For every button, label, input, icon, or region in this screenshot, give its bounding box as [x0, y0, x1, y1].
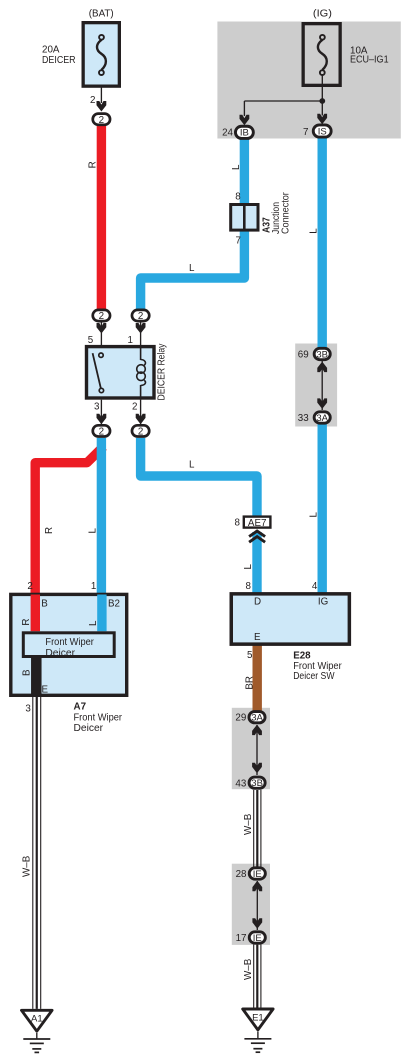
svg-text:2: 2 — [99, 427, 104, 438]
svg-text:Deicer: Deicer — [45, 648, 75, 659]
svg-text:IE: IE — [253, 933, 262, 944]
svg-text:3B: 3B — [251, 778, 263, 789]
svg-text:2: 2 — [90, 95, 95, 106]
svg-text:2: 2 — [99, 311, 104, 322]
svg-text:69: 69 — [298, 349, 309, 360]
svg-text:8: 8 — [234, 518, 240, 529]
svg-text:29: 29 — [235, 713, 246, 724]
svg-text:B2: B2 — [108, 598, 120, 609]
svg-text:A1: A1 — [31, 1014, 43, 1025]
svg-text:L: L — [308, 228, 319, 234]
svg-text:2: 2 — [132, 401, 137, 412]
svg-text:DEICER: DEICER — [42, 55, 76, 66]
svg-text:A7: A7 — [74, 701, 87, 712]
svg-text:8: 8 — [235, 192, 241, 203]
svg-text:B: B — [21, 669, 32, 676]
svg-text:AE7: AE7 — [248, 518, 267, 529]
svg-text:IG: IG — [318, 597, 328, 608]
svg-text:28: 28 — [236, 869, 247, 880]
svg-text:W–B: W–B — [243, 813, 254, 835]
svg-text:7: 7 — [236, 236, 241, 247]
svg-text:E28: E28 — [293, 650, 311, 661]
svg-text:8: 8 — [246, 581, 252, 592]
svg-text:(IG): (IG) — [313, 9, 332, 20]
svg-text:BR: BR — [244, 676, 255, 690]
svg-text:E1: E1 — [252, 1012, 264, 1023]
svg-text:R: R — [44, 527, 55, 534]
svg-text:3A: 3A — [316, 413, 328, 424]
svg-text:Deicer SW: Deicer SW — [293, 671, 335, 682]
svg-text:R: R — [88, 161, 99, 168]
svg-text:Front Wiper: Front Wiper — [45, 637, 94, 648]
svg-text:E: E — [42, 684, 49, 695]
svg-text:1: 1 — [128, 335, 133, 346]
svg-text:Front Wiper: Front Wiper — [74, 712, 123, 723]
svg-text:E: E — [254, 632, 261, 643]
svg-text:2: 2 — [138, 427, 143, 438]
svg-text:3B: 3B — [316, 349, 328, 360]
svg-text:DEICER Relay: DEICER Relay — [156, 343, 167, 400]
svg-text:4: 4 — [312, 581, 318, 592]
svg-text:1: 1 — [91, 581, 96, 592]
svg-text:2: 2 — [27, 581, 32, 592]
svg-text:Connector: Connector — [281, 192, 292, 234]
svg-text:2: 2 — [99, 115, 104, 126]
svg-text:33: 33 — [298, 413, 309, 424]
svg-text:IE: IE — [253, 869, 262, 880]
svg-text:43: 43 — [235, 778, 246, 789]
svg-text:L: L — [189, 263, 195, 274]
svg-text:B: B — [41, 598, 48, 609]
svg-text:5: 5 — [88, 335, 94, 346]
svg-text:L: L — [231, 164, 242, 170]
svg-text:IS: IS — [318, 126, 327, 137]
svg-text:D: D — [254, 597, 261, 608]
svg-text:(BAT): (BAT) — [89, 9, 114, 20]
svg-text:Deicer: Deicer — [74, 723, 104, 734]
svg-text:R: R — [21, 619, 32, 626]
svg-text:2: 2 — [138, 311, 143, 322]
svg-text:IB: IB — [240, 128, 249, 139]
svg-text:5: 5 — [247, 650, 253, 661]
svg-text:L: L — [308, 512, 319, 518]
svg-text:L: L — [243, 564, 254, 570]
svg-text:3: 3 — [25, 704, 31, 715]
svg-text:24: 24 — [222, 128, 233, 139]
svg-text:L: L — [88, 620, 99, 626]
svg-text:W–B: W–B — [22, 855, 33, 877]
svg-text:W–B: W–B — [243, 958, 254, 980]
svg-text:3A: 3A — [251, 713, 263, 724]
svg-text:L: L — [189, 459, 195, 470]
svg-text:3: 3 — [94, 401, 100, 412]
svg-text:ECU–IG1: ECU–IG1 — [350, 54, 389, 65]
svg-text:7: 7 — [303, 127, 308, 138]
svg-text:L: L — [88, 528, 99, 534]
svg-text:17: 17 — [236, 933, 247, 944]
